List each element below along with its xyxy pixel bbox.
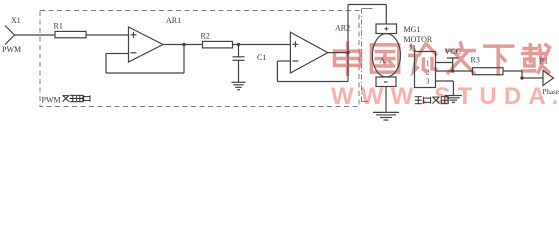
svg-text:PWM: PWM [42, 95, 61, 104]
svg-text:D: D [504, 83, 521, 110]
svg-text:R2: R2 [201, 31, 210, 40]
svg-text:W: W [331, 83, 354, 110]
svg-text:C1: C1 [257, 53, 266, 62]
svg-text:X1: X1 [11, 16, 21, 25]
svg-text:R3: R3 [471, 56, 480, 65]
svg-text:P1: P1 [540, 57, 548, 66]
svg-text:VCC: VCC [445, 47, 461, 56]
svg-text:J1: J1 [409, 44, 416, 53]
svg-text:R1: R1 [54, 21, 63, 30]
svg-text:PWM: PWM [2, 45, 21, 54]
svg-text:AR1: AR1 [166, 16, 181, 25]
svg-text:MG1: MG1 [404, 25, 421, 34]
svg-text:Phase: Phase [543, 88, 559, 96]
svg-text:A: A [380, 56, 386, 65]
svg-text:1: 1 [426, 59, 430, 67]
svg-text:U: U [479, 83, 496, 110]
svg-text:T: T [458, 83, 473, 110]
svg-text:AR2: AR2 [335, 24, 350, 33]
svg-text:3: 3 [426, 78, 430, 86]
svg-text:MOTOR: MOTOR [404, 35, 433, 44]
svg-text:2: 2 [426, 69, 430, 77]
